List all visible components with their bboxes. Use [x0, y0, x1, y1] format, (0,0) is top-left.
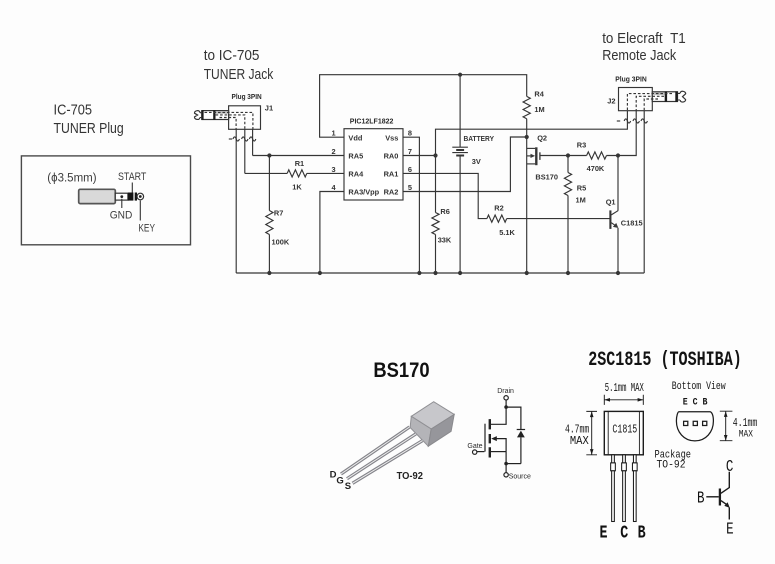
svg-text:R4: R4: [534, 89, 544, 98]
svg-text:Vdd: Vdd: [348, 133, 362, 142]
svg-text:Vss: Vss: [385, 133, 398, 142]
svg-text:PIC12LF1822: PIC12LF1822: [350, 117, 394, 126]
svg-text:KEY: KEY: [138, 222, 155, 234]
svg-text:Q1: Q1: [606, 198, 616, 207]
svg-text:470K: 470K: [587, 164, 605, 173]
svg-text:Gate: Gate: [467, 443, 482, 450]
svg-text:RA1: RA1: [384, 170, 399, 179]
svg-text:C1815: C1815: [621, 219, 643, 228]
svg-text:BS170: BS170: [535, 172, 558, 181]
svg-text:1: 1: [332, 129, 336, 138]
svg-text:J1: J1: [265, 103, 273, 112]
svg-text:J2: J2: [607, 97, 615, 106]
svg-text:Plug 3PIN: Plug 3PIN: [615, 75, 647, 84]
svg-text:C: C: [726, 457, 734, 476]
svg-text:RA5: RA5: [348, 151, 363, 160]
svg-text:E: E: [726, 519, 734, 538]
svg-text:RA2: RA2: [384, 188, 399, 197]
svg-text:START: START: [118, 171, 146, 183]
svg-text:Drain: Drain: [497, 388, 514, 395]
svg-text:BS170: BS170: [373, 359, 429, 382]
svg-text:1M: 1M: [534, 105, 544, 114]
svg-text:3V: 3V: [472, 157, 481, 166]
svg-text:1M: 1M: [576, 196, 586, 205]
svg-text:3: 3: [332, 165, 336, 174]
svg-text:2SC1815 (TOSHIBA): 2SC1815 (TOSHIBA): [588, 349, 742, 372]
svg-text:MAX: MAX: [570, 435, 589, 448]
svg-text:TO-92: TO-92: [657, 459, 686, 471]
svg-text:TUNER Jack: TUNER Jack: [204, 67, 274, 83]
svg-text:(ϕ3.5mm): (ϕ3.5mm): [47, 171, 96, 185]
svg-text:7: 7: [408, 147, 412, 156]
svg-text:B: B: [697, 488, 705, 507]
svg-text:RA4: RA4: [348, 170, 364, 179]
svg-text:R1: R1: [295, 159, 304, 168]
svg-text:C: C: [620, 523, 628, 543]
svg-text:R5: R5: [577, 184, 586, 193]
svg-text:Remote Jack: Remote Jack: [602, 48, 677, 64]
svg-text:RA0: RA0: [384, 151, 399, 160]
svg-text:4: 4: [332, 183, 337, 192]
svg-text:C1815: C1815: [612, 423, 637, 437]
svg-text:5.1K: 5.1K: [499, 228, 515, 237]
svg-text:TO-92: TO-92: [397, 470, 423, 482]
svg-text:5.1mm MAX: 5.1mm MAX: [605, 382, 644, 395]
svg-text:E: E: [600, 523, 608, 543]
svg-text:E C B: E C B: [683, 398, 708, 409]
svg-text:to Elecraft T1: to Elecraft T1: [602, 31, 686, 47]
svg-text:BATTERY: BATTERY: [464, 134, 495, 143]
svg-text:33K: 33K: [438, 235, 452, 244]
svg-text:1K: 1K: [292, 182, 302, 191]
svg-text:R7: R7: [274, 208, 283, 217]
svg-text:R2: R2: [494, 203, 503, 212]
svg-text:Bottom View: Bottom View: [672, 381, 726, 393]
svg-text:GND: GND: [110, 209, 133, 221]
svg-text:G: G: [336, 476, 343, 487]
svg-text:IC-705: IC-705: [54, 103, 93, 119]
svg-text:TUNER Plug: TUNER Plug: [54, 121, 124, 137]
svg-text:R3: R3: [577, 141, 586, 150]
svg-text:100K: 100K: [272, 238, 290, 247]
svg-text:2: 2: [332, 147, 336, 156]
svg-text:R6: R6: [440, 207, 449, 216]
svg-text:Source: Source: [509, 474, 531, 481]
svg-text:8: 8: [408, 129, 412, 138]
svg-text:MAX: MAX: [739, 428, 754, 440]
svg-text:6: 6: [408, 165, 412, 174]
svg-text:Plug 3PIN: Plug 3PIN: [232, 92, 262, 101]
svg-text:to IC-705: to IC-705: [204, 48, 260, 64]
svg-text:RA3/Vpp: RA3/Vpp: [348, 188, 379, 197]
svg-text:Q2: Q2: [537, 133, 547, 142]
svg-text:5: 5: [408, 183, 412, 192]
svg-text:B: B: [638, 523, 646, 543]
svg-text:S: S: [345, 481, 351, 492]
